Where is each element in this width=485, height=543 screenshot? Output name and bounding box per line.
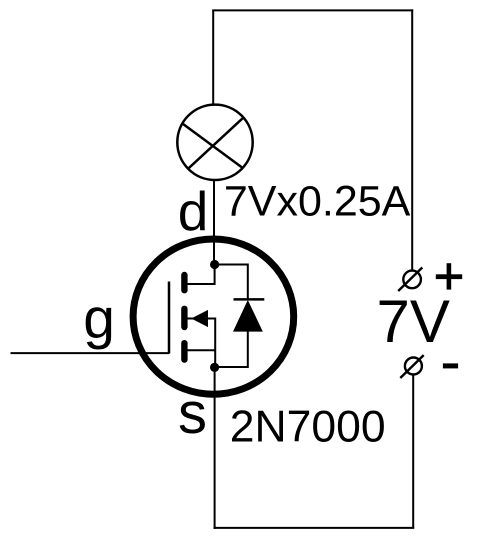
label s (source pin) <box>178 381 207 446</box>
body diode triangle <box>233 300 263 332</box>
svg-text:d: d <box>178 180 209 242</box>
svg-text:s: s <box>178 381 207 446</box>
channel bar bottom <box>181 343 187 359</box>
svg-text:7Vx0.25A: 7Vx0.25A <box>224 178 411 226</box>
terminal + (battery positive) <box>398 268 422 292</box>
wire right vertical upper <box>411 9 413 270</box>
wire top horizontal rail <box>212 9 413 11</box>
body diode cathode bar <box>234 298 265 301</box>
label g (gate pin) <box>83 287 115 351</box>
node drain junction dot <box>210 260 219 269</box>
plus sign <box>436 263 462 289</box>
wire bottom horizontal rail <box>214 527 415 529</box>
minus sign <box>443 363 458 368</box>
wire drain connector (bar to dot) <box>186 265 215 285</box>
part label 2N7000 <box>230 402 386 451</box>
channel bar middle <box>181 309 187 327</box>
node source junction dot <box>210 363 219 372</box>
svg-text:g: g <box>83 287 115 351</box>
wire gate lead from left <box>11 352 170 354</box>
svg-text:2N7000: 2N7000 <box>230 402 386 451</box>
source label 7V <box>377 288 450 355</box>
lamp L1 <box>177 105 252 180</box>
transistor Q1 2N7000 body circle <box>133 239 294 394</box>
wire top vertical from lamp to top rail <box>212 10 214 105</box>
wire source connector (bottom bar to source line) <box>186 349 215 351</box>
value label 7Vx0.25A <box>224 178 411 226</box>
terminal - (battery negative) <box>400 355 423 378</box>
body diode wire upper <box>215 265 248 300</box>
body diode wire lower <box>215 331 248 367</box>
label d (drain pin) <box>178 180 209 242</box>
wire source to bottom rail <box>214 367 216 529</box>
svg-text:7V: 7V <box>377 288 450 355</box>
wire body/source connector <box>186 319 215 368</box>
wire right vertical lower <box>412 375 414 529</box>
gate vertical line <box>168 282 171 354</box>
wire lamp bottom to drain <box>213 180 215 265</box>
channel bar top <box>181 275 187 290</box>
body arrow (points to channel) <box>191 310 208 327</box>
